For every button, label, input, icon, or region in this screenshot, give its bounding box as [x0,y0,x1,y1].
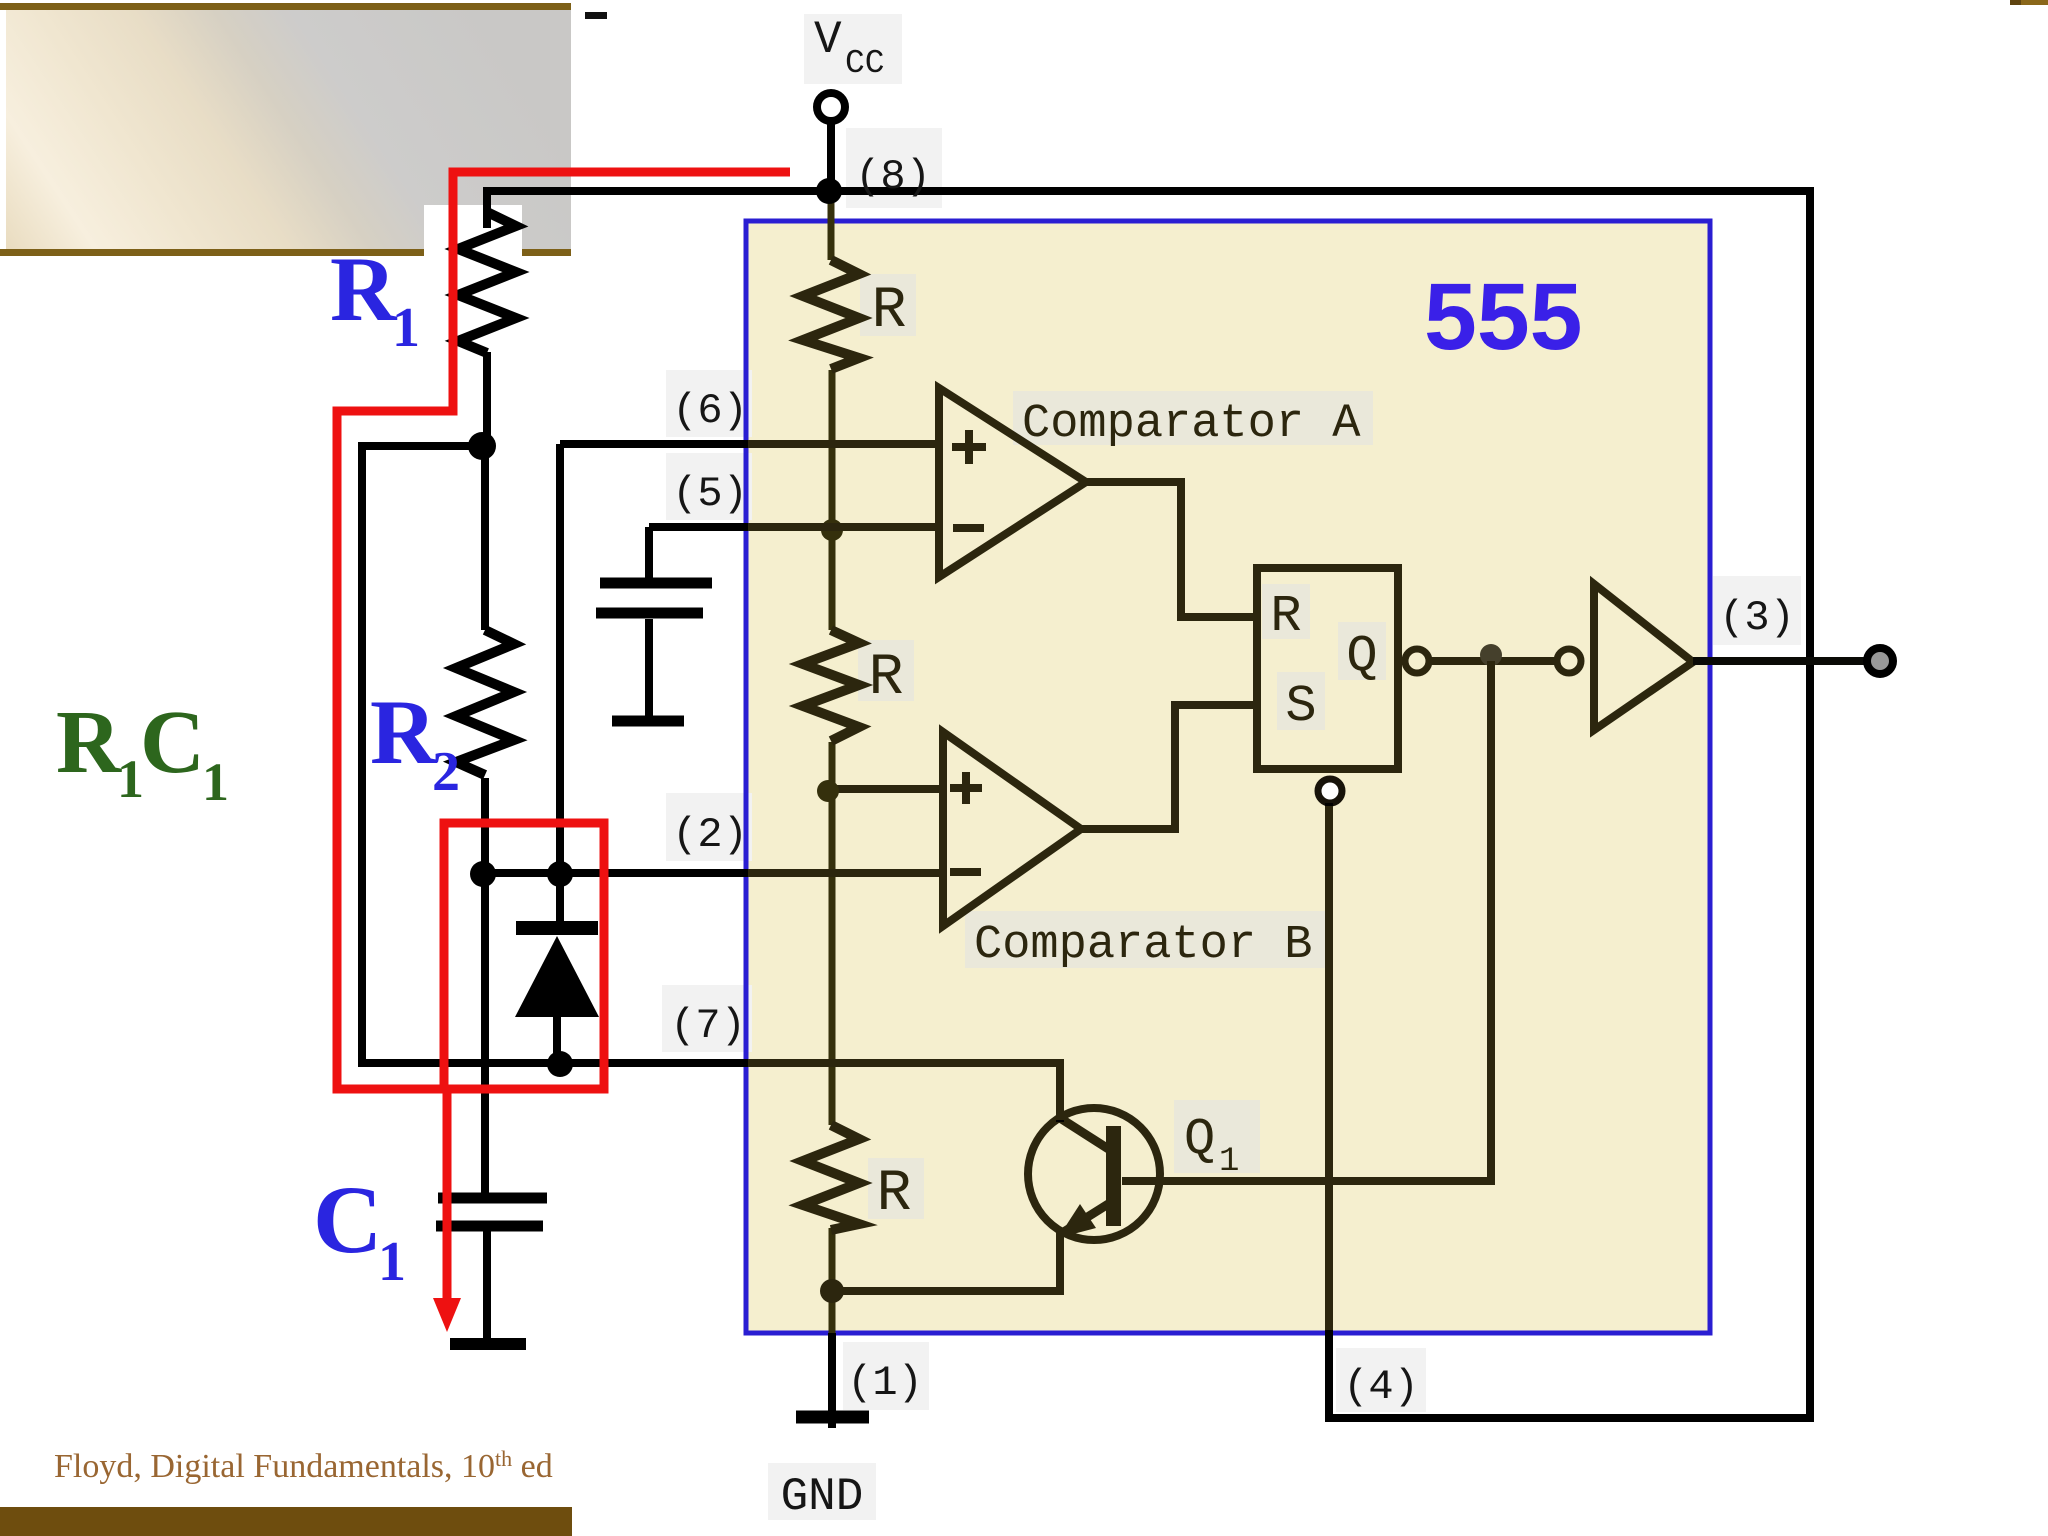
wire left loop junction to pin 7 [362,446,1060,1122]
svg-text:R: R [877,1162,912,1227]
red highlight wire from Vcc through R1 path [337,172,790,1089]
svg-text:R: R [330,238,398,340]
op-amp comparator B [943,732,1081,926]
svg-text:(8): (8) [855,153,931,201]
diode D1 stems [557,874,560,1063]
node diode cathode junction [547,861,573,887]
wires pin 6/5/2/7 inside box (olive overdraw) [748,444,1060,1120]
svg-text:(3): (3) [1719,594,1795,642]
svg-text:S: S [1285,677,1316,736]
wire Q1 emitter to divider bottom [832,1230,1060,1291]
svg-text:Q: Q [1184,1110,1215,1169]
latch U1 (R-S flip-flop) [1257,568,1398,769]
internal voltage divider wire [831,193,832,1414]
node pin 8 junction [816,178,842,204]
svg-text:(7): (7) [670,1002,746,1050]
node diode anode/pin7 junction [547,1051,573,1077]
capacitor pin5 top plate [600,578,712,589]
node junction on Q wire [1480,644,1502,666]
svg-text:2: 2 [432,741,460,803]
svg-text:Floyd, Digital Fundamentals, 1: Floyd, Digital Fundamentals, 10th ed [54,1446,553,1485]
wire capacitor C1 to ground [483,1231,491,1344]
svg-text:R: R [1270,587,1301,646]
ground bar pin 1 [796,1411,869,1424]
svg-text:(6): (6) [672,387,748,435]
svg-text:1: 1 [1219,1143,1239,1181]
ground bar C1 [450,1338,526,1350]
capacitor C1 top plate [438,1193,547,1204]
latch Q output bubble [1405,649,1429,673]
svg-text:(2): (2) [672,811,748,859]
wire R1 bottom stem to junction [483,352,491,446]
resistor R (bottom of divider) [803,1125,859,1230]
red highlight box around diode [444,823,604,1089]
resistor R1 [458,212,516,353]
red arrow to C1 [443,1091,452,1302]
wire Vcc rail: pin 8 across top, down right side, along bottom to pin 4 [487,191,1810,1418]
small dash artifact top centre [585,12,607,19]
svg-text:V: V [814,14,842,66]
svg-text:Comparator B: Comparator B [974,919,1312,972]
diode D1 body [515,936,599,1017]
node divider/emitter junction [820,1279,844,1303]
svg-text:C: C [313,1166,382,1273]
svg-text:GND: GND [781,1471,864,1523]
wire pin 3 output [1693,657,1866,665]
wire Vcc to pin 8 [827,122,835,191]
white patch behind R1 over photo [424,205,522,258]
svg-text:R: R [869,646,904,711]
node divider/pin5 junction [821,519,843,541]
capacitor pin5 bottom plate [596,608,703,619]
node divider/comparator B junction [817,780,839,802]
resistor R2 [456,630,514,775]
555 IC boundary box [746,221,1710,1333]
Vcc terminal [817,93,845,121]
svg-text:(4): (4) [1343,1363,1419,1411]
svg-text:CC: CC [845,45,885,82]
op-amp comparator A [939,388,1086,577]
top-right brown fragment [2010,0,2048,5]
svg-text:1: 1 [392,297,420,359]
wire pin 5 control [649,527,939,716]
buffer input bubble [1557,649,1581,673]
svg-text:555: 555 [1424,264,1583,370]
wire pin 1 to ground [828,1333,836,1428]
decorative top rule (slide template) [0,3,571,10]
wire pin 6 threshold [560,444,939,874]
wire pin 2 trigger [483,869,943,877]
capacitor C1 bottom plate [436,1221,543,1232]
diode D1 cathode bar [516,921,598,935]
node R2/C1/pin2 junction [470,861,496,887]
latch bottom bubble [1318,779,1342,803]
svg-text:R: R [872,279,907,344]
wire base drive from Q node down to Q1 [1122,661,1491,1181]
svg-text:(5): (5) [672,470,748,518]
wire comparator B output to latch S [1077,705,1257,829]
wire pin 4 inside box (olive) [1325,806,1333,1330]
svg-text:Comparator A: Comparator A [1022,398,1361,451]
svg-text:(1): (1) [847,1359,923,1407]
label speckle patches [662,14,1801,1520]
wire capacitor C1 top [481,874,489,1193]
wire comparator A output to latch R [1082,482,1257,617]
ground bar pin5 capacitor [612,716,684,727]
bottom brown bar [0,1507,572,1536]
node R1/R2 junction [468,432,496,460]
555 IC boundary border redraw [746,221,1710,1333]
resistor R (top of divider) [803,260,859,369]
svg-text:1: 1 [202,752,229,812]
wire comparator B plus input to divider [832,785,943,793]
resistor R (middle of divider) [803,630,859,741]
svg-text:C: C [140,693,205,792]
transistor Q1 [1028,1108,1160,1240]
wire latch Q to buffer [1429,657,1557,665]
output buffer triangle [1594,584,1693,730]
svg-text:R: R [370,681,438,783]
svg-text:1: 1 [378,1231,406,1293]
decorative corner photo block [6,10,571,249]
output terminal pin 3 [1867,648,1893,674]
decorative rule under photo block [0,249,571,256]
svg-text:Q: Q [1346,627,1377,686]
svg-text:R: R [56,693,122,792]
resistor R2 stems [481,446,489,874]
